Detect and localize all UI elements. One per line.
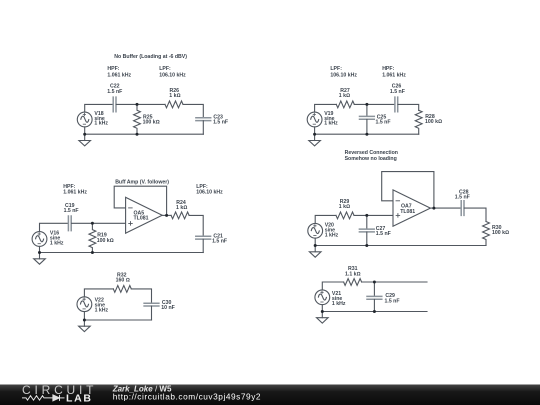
ground c5: [79, 326, 91, 331]
svg-text:HPF:: HPF:: [382, 66, 394, 72]
svg-text:1.5 nF: 1.5 nF: [213, 119, 228, 125]
resistor R30: [483, 222, 490, 246]
op-amp OA5 feedback wire: [114, 186, 166, 215]
wire bottom rail c6: [322, 311, 427, 313]
wire C30 to bottom: [151, 306, 153, 320]
node dot V16 bottom: [38, 251, 41, 254]
resistor R24: [171, 212, 189, 219]
node dot V18 bottom: [83, 133, 86, 136]
capacitor C29: [367, 296, 382, 299]
op-amp OA7 feedback wire: [382, 172, 434, 209]
capacitor C27: [359, 229, 374, 232]
source V16: [32, 232, 47, 247]
capacitor C25 branch wire upper: [366, 104, 368, 116]
wire bottom rail c4: [315, 245, 486, 247]
capacitor C19: [68, 216, 71, 231]
svg-text:No Buffer (Loading at -6 dBV): No Buffer (Loading at -6 dBV): [114, 54, 187, 60]
wire V18 to ground: [84, 127, 86, 141]
svg-text:1.061 kHz: 1.061 kHz: [382, 73, 406, 79]
source V21: [315, 290, 330, 305]
svg-text:1.5 nF: 1.5 nF: [64, 208, 79, 214]
source V18: [77, 112, 92, 127]
wire OA7 output to C28: [430, 207, 461, 209]
svg-text:1.5 nF: 1.5 nF: [212, 239, 227, 245]
svg-text:LAB: LAB: [66, 393, 93, 405]
svg-text:100 kΩ: 100 kΩ: [492, 230, 509, 236]
capacitor C25 branch wire lower: [366, 119, 368, 134]
wire OA5 output to R24: [162, 214, 171, 216]
svg-text:1 kΩ: 1 kΩ: [169, 93, 180, 99]
wire V22 top to R32: [84, 289, 113, 297]
svg-text:LPF:: LPF:: [159, 66, 171, 72]
resistor R31: [344, 279, 362, 286]
wire V19 to ground: [314, 127, 316, 141]
svg-text:1 kHz: 1 kHz: [50, 240, 64, 246]
wire C22 to R26: [116, 103, 165, 105]
resistor R29: [336, 212, 354, 219]
capacitor C29 branch wire lower: [373, 299, 375, 311]
svg-text:100 kΩ: 100 kΩ: [143, 119, 160, 125]
svg-text:1.5 nF: 1.5 nF: [376, 231, 391, 237]
svg-text:1.5 nF: 1.5 nF: [107, 89, 122, 95]
capacitor C27 branch wire lower: [366, 232, 368, 245]
svg-text:100 kΩ: 100 kΩ: [97, 238, 114, 244]
svg-text:100 kΩ: 100 kΩ: [425, 119, 442, 125]
wire C28 to R30 corner: [464, 208, 486, 221]
op-amp OA5: [126, 197, 163, 233]
wire top from V18 to C22: [85, 104, 113, 112]
svg-text:1 kΩ: 1 kΩ: [339, 204, 350, 210]
node dot C27 bottom: [365, 244, 368, 247]
resistor R19: [89, 223, 96, 252]
svg-text:10 nF: 10 nF: [161, 305, 175, 311]
capacitor C27 branch wire upper: [366, 215, 368, 229]
node dot C25 top: [365, 103, 368, 106]
capacitor C26: [395, 97, 398, 112]
wire C19 to op-amp plus input: [72, 222, 126, 224]
svg-text:106.10 kHz: 106.10 kHz: [196, 190, 223, 196]
wire R27 to C26: [354, 103, 394, 105]
wire V21 top to R31: [322, 282, 343, 290]
wire R26 to C23 corner: [183, 104, 203, 117]
wire V22 to ground: [83, 312, 85, 327]
resistor R32: [113, 286, 131, 293]
capacitor C21: [196, 236, 211, 239]
capacitor C23: [196, 118, 211, 121]
wire V20 top to R29: [315, 215, 336, 223]
wire bottom rail c2: [315, 133, 419, 135]
wire C23 to bottom: [202, 121, 204, 134]
svg-text:1.061 kHz: 1.061 kHz: [63, 190, 87, 196]
wire V21 to ground: [321, 305, 323, 318]
node dot OA7 output: [432, 207, 435, 210]
source V22: [77, 297, 92, 312]
svg-text:1.5 nF: 1.5 nF: [390, 89, 405, 95]
svg-text:Buff Amp (V. follower): Buff Amp (V. follower): [115, 180, 169, 186]
capacitor C28: [461, 201, 464, 216]
capacitor C25: [360, 116, 375, 119]
logo diode: [53, 395, 60, 401]
svg-text:1 kΩ: 1 kΩ: [339, 93, 350, 99]
wire R31 to right end: [362, 281, 427, 283]
svg-text:1.5 nF: 1.5 nF: [455, 194, 470, 200]
capacitor C29 branch wire upper: [373, 282, 375, 296]
wire R32 to C30 corner: [131, 289, 151, 303]
svg-text:1.5 nF: 1.5 nF: [376, 119, 391, 125]
node dot C29 bottom: [373, 310, 376, 313]
node dot input node: [91, 222, 94, 225]
svg-text:HPF:: HPF:: [107, 66, 119, 72]
svg-text:106.10 kHz: 106.10 kHz: [159, 73, 186, 79]
svg-text:160 Ω: 160 Ω: [116, 278, 130, 284]
node dot output node: [165, 214, 168, 217]
svg-text:1 kHz: 1 kHz: [94, 121, 108, 127]
resistor R28: [415, 110, 422, 134]
svg-text:1 kHz: 1 kHz: [325, 232, 339, 238]
svg-text:TL081: TL081: [400, 209, 415, 215]
svg-text:1 kHz: 1 kHz: [332, 301, 346, 307]
svg-text:Somehow no loading: Somehow no loading: [345, 156, 397, 162]
node dot V21 bottom: [321, 310, 324, 313]
capacitor C22: [113, 97, 116, 112]
capacitor C30: [144, 303, 159, 306]
resistor R25: [134, 104, 141, 134]
ground c4: [309, 252, 321, 257]
op-amp OA7: [393, 190, 430, 226]
wire R24 to C21 corner: [189, 215, 203, 236]
node dot V20 bottom: [314, 244, 317, 247]
ground c3: [34, 259, 46, 264]
wire C26 to R28 corner: [398, 104, 419, 110]
svg-text:1 kHz: 1 kHz: [324, 121, 338, 127]
ground c2: [309, 141, 321, 146]
resistor R27: [336, 101, 354, 108]
node dot C29 top: [373, 281, 376, 284]
node dot V19 bottom: [313, 133, 316, 136]
svg-text:TL081: TL081: [134, 216, 149, 222]
svg-text:1.5 nF: 1.5 nF: [385, 298, 400, 304]
wire bottom rail c5: [84, 319, 151, 321]
svg-text:http://circuitlab.com/cuv3pj49: http://circuitlab.com/cuv3pj49s79y2: [113, 392, 261, 402]
node dot V22 bottom: [83, 319, 86, 322]
footer background: [0, 385, 540, 405]
wire V16 to ground: [39, 246, 41, 258]
wire bottom rail c3: [40, 252, 204, 254]
svg-text:1 kHz: 1 kHz: [95, 307, 109, 313]
svg-text:1.1 kΩ: 1.1 kΩ: [345, 272, 361, 278]
node dot C25 bottom: [365, 133, 368, 136]
node dot R25 bottom: [136, 133, 139, 136]
wire V20 to ground: [314, 238, 316, 252]
wire C21 to bottom: [202, 239, 204, 252]
node dot R25 top: [136, 103, 139, 106]
source V19: [307, 112, 322, 127]
wire top from V19 to R27: [315, 104, 337, 112]
node dot R19 bottom: [91, 251, 94, 254]
svg-text:1.061 kHz: 1.061 kHz: [107, 73, 131, 79]
ground c1: [79, 141, 91, 146]
resistor R26: [165, 101, 183, 108]
svg-text:1 kΩ: 1 kΩ: [176, 205, 187, 211]
logo wire with resistor: [22, 395, 65, 401]
wire R29 to op-amp plus input: [354, 214, 393, 216]
wire V16 top to C19: [40, 223, 69, 231]
ground c6: [317, 318, 329, 323]
source V20: [308, 223, 323, 238]
svg-text:LPF:: LPF:: [330, 66, 342, 72]
wire bottom rail c1: [85, 133, 204, 135]
svg-text:106.10 kHz: 106.10 kHz: [330, 73, 357, 79]
node dot input node c4: [365, 214, 368, 217]
